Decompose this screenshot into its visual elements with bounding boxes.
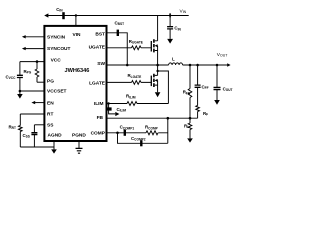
svg-text:PG: PG [47,78,54,84]
svg-text:BST: BST [95,31,105,37]
svg-text:COMP: COMP [91,131,106,137]
svg-text:VIN: VIN [180,8,187,14]
node VOUT arrow [227,63,230,66]
wire SS pin [34,124,44,126]
svg-text:COUT: COUT [223,86,233,92]
ground (Q2 source) [155,92,161,97]
svg-text:RUGATE: RUGATE [129,39,143,45]
capacitor CBST [117,30,119,36]
resistor RL [189,118,191,123]
wire SW line [107,64,169,66]
svg-text:CVCC: CVCC [6,74,17,80]
svg-text:RF: RF [203,111,208,117]
capacitor CCOMP1 [124,130,126,136]
resistor RRT [19,114,21,126]
transistor Q2 (low side NMOS) [150,76,152,87]
wire CCOMP2 branch [118,133,168,144]
wire RT pin [20,113,44,115]
wire BST pin [107,33,128,65]
svg-text:EN: EN [47,100,54,106]
svg-text:AGND: AGND [48,133,63,139]
ground (CILIM, right arrow) [115,112,119,116]
resistor RLGATE [132,81,141,85]
wire analog ground bus [20,146,54,148]
ground (COUT) [214,100,220,105]
wire ILIM pin [107,103,169,105]
svg-text:L: L [172,56,175,61]
svg-text:CBST: CBST [115,20,125,26]
svg-text:RCOMP: RCOMP [145,125,159,131]
wire LGATE pin [107,81,152,83]
svg-text:JWH6346: JWH6346 [65,68,90,74]
resistor RFB [189,65,191,89]
wire VCC pin [20,61,45,63]
wire VOUT rail [183,64,230,66]
svg-text:RILIM: RILIM [126,94,136,100]
node VIN junction tick [169,13,171,17]
wire ILIM sense tee to SW [158,71,169,104]
capacitor CFF [197,65,199,85]
svg-text:SYNCOUT: SYNCOUT [47,46,71,52]
svg-text:VCCSET: VCCSET [47,89,67,95]
wire VIN pin drop [75,16,77,26]
svg-text:RT: RT [47,112,53,118]
wire PG pin [37,81,44,83]
svg-text:CFF: CFF [202,84,209,90]
svg-text:CIN: CIN [174,26,181,32]
svg-text:CSS: CSS [23,133,30,139]
ground (PGND earth) [78,141,80,148]
svg-text:VIN: VIN [73,32,82,38]
svg-text:CCOMP1: CCOMP1 [120,125,135,131]
resistor RF [196,106,200,112]
svg-text:RL: RL [184,123,189,129]
capacitor CSS [33,125,35,133]
wire VCCSET pin [20,90,45,92]
resistor RILIM [127,102,137,106]
capacitor CIN (series, top-left) [62,12,65,19]
node input arrow left [44,13,48,17]
wire EN pin [33,102,44,104]
capacitor COUT [216,65,218,87]
resistor RPG [36,62,38,69]
svg-text:RRT: RRT [9,124,16,130]
transistor Q1 (high side NMOS) [150,41,152,52]
wire UGATE pin [107,47,152,49]
svg-text:RPG: RPG [24,69,32,75]
wire COMP pin [107,132,168,134]
ground (AGND) [53,141,55,149]
wire SYNCIN pin [24,36,45,38]
resistor RUGATE [132,46,141,50]
svg-text:UGATE: UGATE [89,44,106,50]
capacitor CILIM [107,102,109,104]
svg-text:SS: SS [47,123,54,129]
svg-text:CIN: CIN [56,7,63,13]
svg-text:CILIM: CILIM [117,107,127,113]
resistor RCOMP [146,131,158,135]
wire top VIN rail [48,15,189,17]
capacitor CVCC [19,62,21,75]
capacitor CCOMP2 [140,140,142,146]
svg-text:SYNCIN: SYNCIN [47,35,66,41]
svg-text:RFB: RFB [183,90,191,96]
svg-text:SW: SW [97,61,105,67]
capacitor CIN (shunt, right) [169,16,171,27]
ground (RL) [187,138,193,142]
svg-text:PGND: PGND [72,133,86,139]
wire FB line [107,117,198,119]
inductor L [169,63,183,65]
ground (CIN right) [167,39,173,44]
ground (CVCC) [17,94,23,99]
svg-text:RLGATE: RLGATE [128,73,142,79]
svg-text:FB: FB [97,115,104,121]
svg-text:VCC: VCC [51,58,62,64]
wire comp vertical to FB [167,118,169,143]
svg-text:VOUT: VOUT [217,52,228,58]
svg-text:ILIM: ILIM [94,101,104,107]
svg-text:CCOMP2: CCOMP2 [131,136,146,142]
IC U1 JWH6346 body [44,26,106,141]
svg-text:LGATE: LGATE [89,80,106,86]
wire SYNCOUT pin [24,48,45,50]
